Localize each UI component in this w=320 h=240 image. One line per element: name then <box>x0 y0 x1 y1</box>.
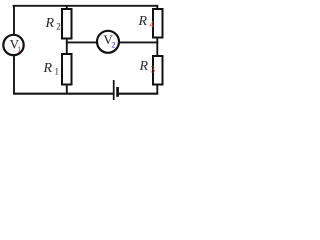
wire left lower <box>13 55 15 95</box>
wire bottom right <box>119 93 158 95</box>
resistor R3 <box>139 56 163 85</box>
svg-text:R: R <box>45 16 55 31</box>
battery thick plate <box>116 87 119 97</box>
wire top <box>13 5 159 7</box>
svg-text:2: 2 <box>111 39 115 49</box>
wire middle left segment <box>66 41 98 43</box>
wire stub top to R2 <box>66 5 68 10</box>
wire mid branch between R2 and R1 <box>66 38 68 55</box>
svg-text:1: 1 <box>17 44 21 54</box>
wire stub R3 to bottom <box>156 84 158 94</box>
svg-text:R: R <box>138 14 148 29</box>
svg-text:2: 2 <box>56 21 61 31</box>
resistor R1 <box>43 54 72 85</box>
voltmeter V2 <box>97 31 119 53</box>
svg-text:1: 1 <box>55 67 60 77</box>
svg-text:R: R <box>139 59 149 74</box>
wire stub top to R4 <box>156 5 158 10</box>
resistor R2 <box>45 9 72 39</box>
battery thin plate <box>113 80 115 100</box>
wire bottom left <box>13 93 113 95</box>
wire left upper <box>13 5 15 35</box>
resistor R4 <box>138 9 163 38</box>
svg-text:4: 4 <box>150 20 155 30</box>
voltmeter V1 <box>3 35 23 55</box>
wire stub R1 to bottom <box>66 84 68 94</box>
svg-text:R: R <box>43 61 53 76</box>
wire middle right segment <box>119 41 158 43</box>
wire right branch between R4 and R3 <box>156 37 158 57</box>
svg-text:3: 3 <box>151 65 156 75</box>
